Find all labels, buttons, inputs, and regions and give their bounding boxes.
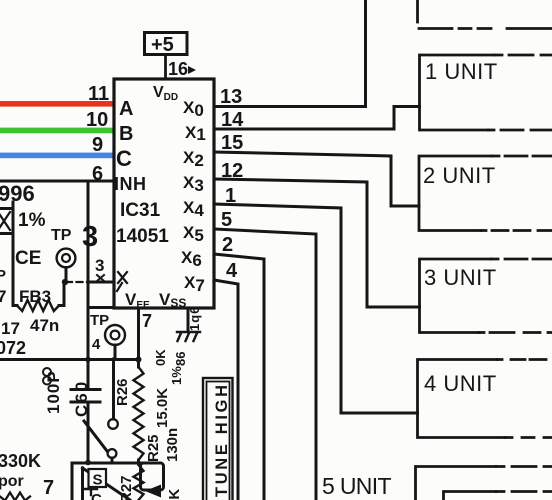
svg-text:X2: X2 — [183, 148, 204, 170]
resistor R26 — [134, 367, 144, 460]
svg-text:X6: X6 — [181, 248, 202, 270]
svg-text:por: por — [0, 473, 24, 490]
wire rail y359 — [0, 358, 139, 361]
node C60 rail junction dot — [85, 357, 91, 363]
wire X0 pin 13 to top unit — [214, 0, 366, 107]
svg-text:4 UNIT: 4 UNIT — [424, 371, 497, 396]
svg-text:9: 9 — [92, 134, 103, 156]
svg-text:X1: X1 — [185, 123, 206, 144]
svg-text:7: 7 — [142, 311, 152, 331]
svg-text:1%: 1% — [169, 366, 184, 385]
svg-text:P: P — [0, 267, 6, 284]
wire X3 pin 12 to 3 UNIT — [214, 179, 420, 307]
svg-text:X0: X0 — [183, 98, 204, 120]
svg-text:14: 14 — [221, 109, 244, 131]
wire pin 3 VEE link — [88, 281, 114, 284]
wire +5 to VDD pin 16 — [164, 55, 167, 80]
svg-text:TUNE HIGH: TUNE HIGH — [213, 385, 231, 497]
svg-text:13: 13 — [220, 86, 242, 108]
component box 1 percent — [0, 209, 13, 234]
ground — [177, 332, 200, 341]
unit box 1 — [420, 55, 495, 130]
wire X6 pin 2 down — [214, 254, 264, 500]
svg-text:15.0K: 15.0K — [154, 388, 171, 428]
svg-text:X3: X3 — [183, 173, 204, 195]
node TP3 junction dot — [62, 279, 68, 285]
op-amp triangle — [83, 468, 131, 500]
svg-text:C60: C60 — [72, 380, 91, 417]
svg-text:S: S — [93, 472, 103, 489]
wire node E down to C60 — [87, 181, 90, 388]
wire X7 pin 4 down — [214, 280, 238, 500]
svg-text:1 UNIT: 1 UNIT — [425, 59, 498, 84]
wire green highlight to pin 10 B — [0, 128, 114, 134]
wire R26 to bus — [137, 460, 140, 463]
svg-text:1K: 1K — [166, 489, 183, 500]
power +5 supply box — [145, 33, 188, 55]
svg-text:15: 15 — [221, 132, 243, 154]
svg-text:11: 11 — [88, 83, 109, 105]
wire X1 pin 14 to 1 UNIT — [214, 107, 420, 130]
svg-text:+5: +5 — [151, 34, 174, 56]
svg-text:16: 16 — [168, 59, 188, 79]
svg-text:4: 4 — [226, 260, 238, 282]
svg-text:B: B — [119, 123, 133, 145]
unit box 5 inner box — [444, 492, 497, 500]
svg-text:4: 4 — [92, 336, 101, 353]
svg-text:R25: R25 — [145, 434, 162, 462]
node rail junction dot — [136, 357, 142, 363]
svg-text:2 UNIT: 2 UNIT — [423, 163, 496, 188]
test point TP3 symbol — [57, 249, 76, 268]
op-amp pin S box — [89, 469, 107, 487]
svg-text:CE: CE — [15, 248, 41, 269]
svg-text:TP: TP — [90, 312, 109, 329]
unit box 4 — [418, 360, 506, 438]
svg-text:17: 17 — [1, 319, 20, 338]
svg-text:996: 996 — [0, 181, 35, 206]
annotation x mark near pin 3 — [97, 275, 104, 281]
svg-text:47n: 47n — [30, 316, 59, 335]
svg-text:TP: TP — [51, 227, 72, 244]
svg-text:072: 072 — [0, 338, 26, 358]
wire X2 pin 15 to 2 UNIT — [214, 152, 419, 206]
capacitor C60 — [71, 390, 100, 403]
wire left branch x13 — [12, 202, 15, 304]
svg-text:3 UNIT: 3 UNIT — [424, 265, 497, 290]
wire X4 pin 1 to 4 UNIT — [214, 204, 418, 413]
resistor horizontal bottom left — [0, 493, 30, 500]
svg-text:5 UNIT: 5 UNIT — [322, 473, 392, 499]
wire blue highlight to pin 9 C — [0, 153, 114, 159]
svg-text:7: 7 — [43, 477, 54, 499]
svg-text:IC31: IC31 — [120, 200, 161, 221]
svg-text:X5: X5 — [183, 223, 204, 245]
svg-text:C: C — [91, 491, 102, 500]
op-amp plus input — [85, 483, 97, 495]
wire C60 to bus — [87, 403, 90, 463]
unit box 5 — [416, 467, 497, 500]
svg-text:1%: 1% — [18, 210, 46, 231]
svg-text:330K: 330K — [0, 451, 41, 471]
wire pin 3 box bottom — [88, 306, 114, 309]
svg-text:A: A — [119, 98, 133, 120]
test point TP4 symbol — [105, 325, 125, 345]
svg-text:2: 2 — [222, 234, 233, 256]
resistor R27 below bus — [134, 465, 144, 500]
svg-text:X4: X4 — [183, 198, 204, 220]
svg-text:1: 1 — [225, 185, 236, 207]
svg-text:14051: 14051 — [116, 226, 169, 247]
svg-text:R27: R27 — [118, 475, 135, 500]
wire rail to switch — [112, 359, 115, 419]
wire red highlight to pin 11 A — [0, 101, 114, 107]
C60 text circles — [43, 368, 51, 376]
resistor 47 ohm FB3 — [13, 284, 64, 306]
unit box 0 partial top right — [416, 0, 419, 22]
svg-text:3: 3 — [82, 221, 98, 253]
wire INH net y181 — [0, 180, 114, 183]
svg-text:3: 3 — [95, 256, 104, 275]
switch S1 — [108, 419, 118, 429]
wire TP3 dashed link — [66, 281, 88, 283]
svg-text:0K: 0K — [153, 349, 168, 366]
wire bus down left — [71, 463, 74, 500]
trimmer box with arrow — [141, 463, 164, 490]
svg-text:1q6: 1q6 — [187, 306, 202, 331]
wire VSS pin 8 down — [187, 308, 190, 331]
trimmer arrow head — [145, 485, 161, 498]
wire bus y463 — [72, 462, 160, 465]
annotation x mark near VEE — [117, 272, 127, 291]
TUNE HIGH box — [203, 378, 233, 500]
pin 16 arrow mark — [188, 66, 196, 74]
wire X5 pin 5 down — [214, 229, 316, 500]
svg-text:12: 12 — [221, 160, 243, 182]
svg-text:86: 86 — [173, 352, 188, 366]
svg-text:5: 5 — [221, 209, 232, 231]
unit box 2 — [419, 156, 492, 231]
svg-text:INH: INH — [114, 174, 147, 194]
node C60 bus junction dot — [85, 460, 91, 466]
svg-text:C: C — [116, 146, 132, 171]
unit box 3 — [420, 259, 492, 333]
svg-text:R26: R26 — [114, 378, 131, 406]
op-amp U1 IC31 body — [114, 79, 214, 308]
svg-text:130n: 130n — [164, 428, 181, 462]
svg-text:FB3: FB3 — [19, 287, 51, 306]
svg-text:10: 10 — [86, 109, 108, 131]
svg-text:X7: X7 — [184, 273, 205, 295]
wire pin 7 down to R26 — [137, 308, 140, 367]
svg-text:7: 7 — [0, 287, 6, 306]
